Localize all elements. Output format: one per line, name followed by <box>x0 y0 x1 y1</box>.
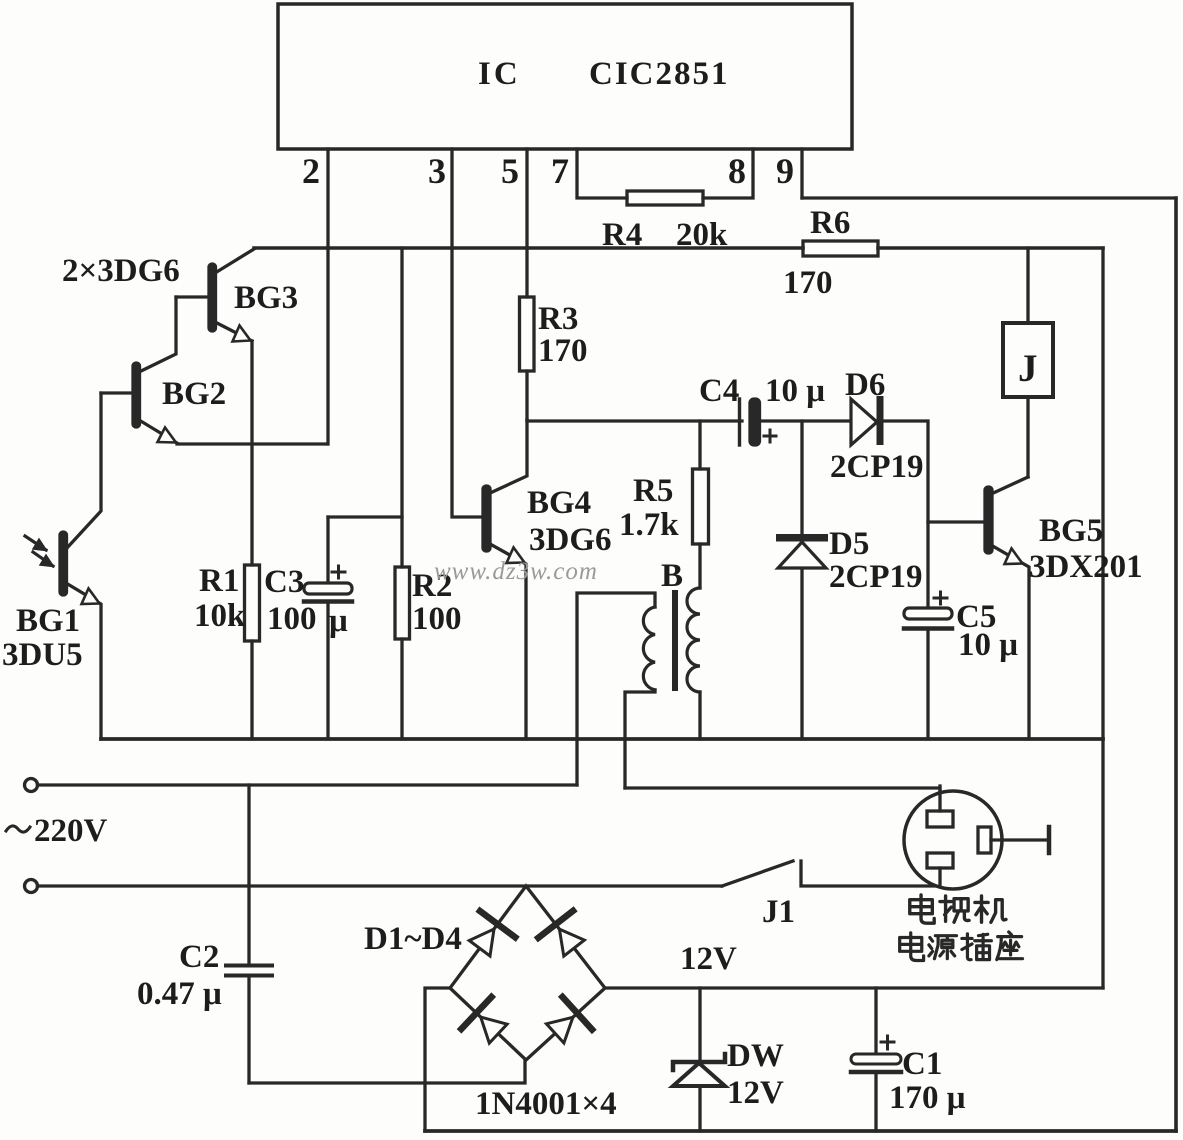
bridge rectifier D1-D4 diamond <box>364 886 617 1122</box>
svg-text:C3: C3 <box>264 564 304 600</box>
wire node C4 line <box>527 419 742 422</box>
svg-text:10k: 10k <box>194 598 246 634</box>
svg-text:10 μ: 10 μ <box>958 627 1018 663</box>
svg-text:3DG6: 3DG6 <box>529 522 612 558</box>
svg-text:12V: 12V <box>680 941 737 977</box>
svg-text:3DX201: 3DX201 <box>1029 549 1143 585</box>
svg-text:100: 100 <box>267 601 317 637</box>
transformer B secondary winding <box>687 588 700 739</box>
svg-text:2: 2 <box>302 151 320 191</box>
wire right edge down <box>1174 198 1178 1131</box>
pin 8 wire <box>703 149 753 198</box>
svg-text:C2: C2 <box>179 939 219 975</box>
svg-text:www.dz3w.com: www.dz3w.com <box>434 558 598 585</box>
diode D6 <box>830 367 924 485</box>
switch J1 <box>722 861 940 930</box>
svg-text:7: 7 <box>551 151 569 191</box>
resistor R1 <box>194 341 260 739</box>
svg-text:100: 100 <box>412 601 462 637</box>
wire C3 to R2 <box>328 515 402 518</box>
svg-text:9: 9 <box>776 151 794 191</box>
svg-text:R5: R5 <box>633 473 673 509</box>
wire 12V rail <box>605 986 1103 989</box>
svg-text:D5: D5 <box>829 526 869 562</box>
wire common rail y739 <box>101 737 1103 741</box>
svg-text:J1: J1 <box>762 894 795 930</box>
pin 3 wire <box>428 149 483 517</box>
svg-text:DW: DW <box>727 1038 784 1074</box>
resistor R4 <box>602 191 728 253</box>
capacitor C2 <box>137 785 272 1083</box>
capacitor C5 <box>904 592 1018 739</box>
svg-text:3: 3 <box>428 151 446 191</box>
terminal AC top <box>25 779 578 792</box>
svg-text:IC: IC <box>478 56 521 92</box>
TV socket outlet <box>625 786 1049 889</box>
svg-text:BG1: BG1 <box>16 603 80 639</box>
svg-text:220V: 220V <box>34 813 108 849</box>
wire C2 to bridge bottom <box>249 1060 525 1083</box>
svg-text:8: 8 <box>728 151 746 191</box>
label TV (dian shi ji) <box>910 895 1006 923</box>
svg-text:1N4001×4: 1N4001×4 <box>475 1086 617 1122</box>
svg-text:1.7k: 1.7k <box>619 507 679 543</box>
svg-text:BG5: BG5 <box>1039 513 1103 549</box>
wire pin9 to right edge <box>802 196 1176 199</box>
diode D2 top-right <box>538 911 584 956</box>
svg-text:10 μ: 10 μ <box>765 373 825 409</box>
transistor BG5 <box>928 477 1143 739</box>
diode D5 <box>776 421 923 739</box>
svg-text:C1: C1 <box>902 1046 942 1082</box>
capacitor C1 <box>851 988 966 1131</box>
svg-text:BG4: BG4 <box>527 485 591 521</box>
resistor R5 <box>619 421 709 588</box>
transistor BG2 <box>101 297 327 444</box>
svg-text:CIC2851: CIC2851 <box>589 56 730 92</box>
svg-text:170: 170 <box>783 265 833 301</box>
label power socket (dian yuan cha zuo) <box>900 932 1023 961</box>
svg-text:170 μ: 170 μ <box>889 1080 966 1116</box>
svg-text:0.47 μ: 0.47 μ <box>137 976 222 1012</box>
wire DC minus <box>425 988 450 1131</box>
label ~220V <box>6 813 108 849</box>
svg-text:BG3: BG3 <box>234 280 298 316</box>
svg-text:B: B <box>661 558 683 594</box>
resistor R3 <box>520 297 588 420</box>
wire main bus y248 <box>254 246 1103 250</box>
transistor BG3 <box>176 249 298 342</box>
svg-text:R1: R1 <box>199 563 239 599</box>
capacitor C4 <box>699 373 825 445</box>
svg-text:12V: 12V <box>727 1075 784 1111</box>
transistor BG4 <box>483 420 612 739</box>
diode D3 bottom-left <box>461 997 507 1043</box>
capacitor C3 <box>264 517 352 739</box>
pin 9 wire <box>776 149 802 198</box>
diode D4 bottom-right <box>546 997 592 1043</box>
IC U1 CIC2851 box <box>278 4 852 149</box>
terminal AC bottom <box>25 880 723 893</box>
resistor R2 <box>395 248 462 739</box>
svg-text:2×3DG6: 2×3DG6 <box>62 253 180 289</box>
wire D6 to BG5/C5 <box>883 421 928 608</box>
wire bottom rail <box>425 1129 1176 1133</box>
svg-text:J: J <box>1018 347 1038 390</box>
svg-text:C4: C4 <box>699 373 739 409</box>
svg-text:2CP19: 2CP19 <box>830 449 924 485</box>
transformer B core <box>661 558 683 691</box>
pin 2 wire <box>302 149 328 444</box>
svg-text:BG2: BG2 <box>162 376 226 412</box>
svg-text:R3: R3 <box>538 301 578 337</box>
zener DW <box>673 988 784 1131</box>
pin 7 wire <box>551 149 627 198</box>
wire relay supply x1103 <box>1101 248 1104 988</box>
relay J <box>1003 248 1053 477</box>
svg-text:D6: D6 <box>845 367 885 403</box>
svg-text:μ: μ <box>329 603 348 639</box>
transistor BG1 photo <box>2 393 101 739</box>
svg-text:R6: R6 <box>810 205 850 241</box>
transformer B primary winding <box>577 593 655 788</box>
resistor R6 <box>783 205 878 301</box>
svg-text:D1~D4: D1~D4 <box>364 921 462 957</box>
wire C4 to D6 <box>759 419 852 422</box>
diode D1 top-left <box>469 911 515 956</box>
pin 5 wire <box>501 149 527 297</box>
svg-text:5: 5 <box>501 151 519 191</box>
svg-text:3DU5: 3DU5 <box>2 637 83 673</box>
svg-text:170: 170 <box>538 333 588 369</box>
svg-text:2CP19: 2CP19 <box>829 559 923 595</box>
